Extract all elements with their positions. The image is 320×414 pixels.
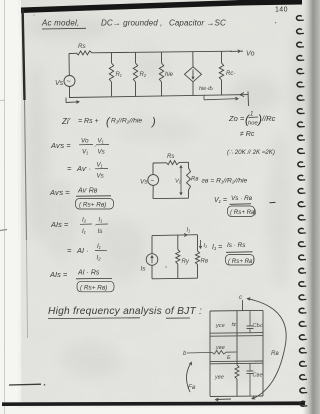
svg-text:Zо =: Zо =	[228, 114, 245, 123]
svg-text:AӀѕ =: AӀѕ =	[50, 220, 69, 229]
svg-text:Zі': Zі'	[61, 117, 71, 126]
svg-text:Rв: Rв	[271, 350, 279, 357]
svg-text:hоe: hоe	[248, 121, 258, 127]
svg-text:V₁ =: V₁ =	[214, 197, 227, 204]
svg-text:hіe: hіe	[165, 72, 174, 78]
svg-text:Rс·: Rс·	[226, 71, 235, 77]
svg-text:V₁: V₁	[175, 179, 181, 185]
svg-text:E: E	[227, 355, 231, 361]
svg-text:DC→ grounded ,: DC→ grounded ,	[101, 19, 162, 28]
svg-text:AӀ · Rѕ: AӀ · Rѕ	[77, 270, 100, 277]
svg-text:I₂: I₂	[82, 217, 87, 224]
svg-text:~: ~	[150, 178, 154, 185]
svg-text:Vѕ: Vѕ	[140, 179, 148, 186]
svg-text:High frequency analysis of BJT: High frequency analysis of BJT :	[48, 306, 202, 317]
svg-text:I₁: I₁	[82, 228, 86, 235]
svg-text:Cвe: Cвe	[253, 373, 263, 379]
svg-text:Capacitor →SC: Capacitor →SC	[169, 19, 226, 28]
svg-text://Rс: //Rс	[261, 114, 276, 123]
svg-text:(∴ 20K // 2K ≈2K): (∴ 20K // 2K ≈2K)	[227, 149, 275, 156]
svg-text:=: =	[67, 246, 72, 255]
svg-text:~: ~	[67, 79, 71, 86]
svg-text:Aѵѕ =: Aѵѕ =	[50, 141, 71, 150]
svg-text:V₁: V₁	[97, 162, 103, 169]
svg-text:( Rѕ+ Rв): ( Rѕ+ Rв)	[230, 209, 256, 216]
svg-text:AӀѕ =: AӀѕ =	[49, 270, 68, 279]
svg-text:= Rѕ +: = Rѕ +	[78, 118, 99, 125]
svg-text:Fв: Fв	[188, 384, 196, 391]
svg-text:Vѕ: Vѕ	[97, 173, 104, 180]
svg-text:Rѕ: Rѕ	[78, 43, 86, 50]
svg-text:Rв: Rв	[201, 259, 208, 265]
svg-text:V₁: V₁	[98, 138, 104, 145]
svg-text:Vо: Vо	[246, 51, 255, 58]
svg-text:1: 1	[250, 112, 253, 118]
svg-text:Vо: Vо	[81, 138, 89, 145]
svg-text:Vѕ: Vѕ	[98, 149, 105, 156]
svg-text:Vѕ · Rв: Vѕ · Rв	[231, 195, 253, 202]
svg-text:·: ·	[94, 143, 96, 150]
svg-text:Iѕ: Iѕ	[98, 228, 103, 235]
svg-text:·: ·	[94, 222, 96, 229]
svg-text:R₁//R₂//hіe: R₁//R₂//hіe	[111, 117, 142, 125]
svg-text:увe: увe	[215, 345, 225, 351]
svg-text:( Rѕ+ Rв): ( Rѕ+ Rв)	[228, 258, 254, 265]
svg-text:увe: увe	[214, 375, 224, 381]
svg-text:I₁: I₁	[187, 228, 191, 234]
svg-text:Rѕ: Rѕ	[167, 154, 174, 160]
svg-text:V₁: V₁	[82, 149, 88, 156]
svg-text:( Rѕ+ Rв): ( Rѕ+ Rв)	[80, 285, 107, 292]
svg-text:CЬс: CЬс	[253, 323, 264, 329]
svg-text:I₁: I₁	[99, 217, 103, 224]
svg-text:гв = R₁//R₂//hіe: гв = R₁//R₂//hіe	[202, 177, 248, 185]
svg-text:=: =	[67, 164, 72, 173]
svg-text:Aѵ ·: Aѵ ·	[76, 164, 91, 173]
svg-text:( Rѕ+ Rв): ( Rѕ+ Rв)	[79, 202, 106, 209]
svg-text:усe: усe	[215, 323, 225, 329]
svg-text:Aѵ Rв: Aѵ Rв	[77, 188, 98, 195]
svg-text:Rв: Rв	[191, 177, 198, 183]
svg-text:Iѕ · Rѕ: Iѕ · Rѕ	[227, 242, 246, 249]
svg-text:Aѵѕ =: Aѵѕ =	[49, 188, 70, 197]
svg-text:Rу: Rу	[182, 259, 190, 265]
svg-text:⇆: ⇆	[231, 322, 236, 328]
svg-text:Iѕ: Iѕ	[141, 266, 147, 273]
svg-text:R₂: R₂	[140, 72, 147, 78]
svg-text:≠ Rс: ≠ Rс	[240, 131, 255, 138]
svg-text:Ac model,: Ac model,	[41, 19, 79, 28]
svg-text:I₁ =: I₁ =	[212, 244, 222, 251]
svg-text:I₁: I₁	[97, 243, 101, 250]
svg-text:140: 140	[275, 7, 288, 14]
svg-text:Vѕ: Vѕ	[55, 80, 64, 87]
svg-text:hіе·iЬ: hіе·iЬ	[199, 86, 213, 92]
svg-text:I₁: I₁	[204, 243, 208, 249]
svg-text:R₁: R₁	[116, 72, 122, 78]
svg-text:I₂: I₂	[97, 255, 102, 262]
svg-text:AӀ ·: AӀ ·	[76, 246, 89, 255]
